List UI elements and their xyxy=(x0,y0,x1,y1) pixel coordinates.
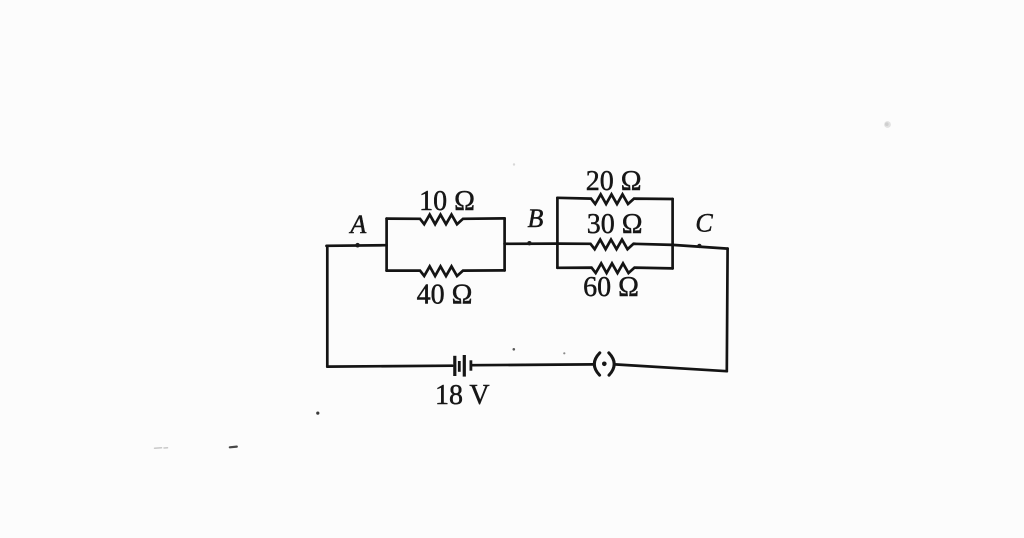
resistor 20 ohm top branch B-C xyxy=(557,194,672,204)
svg-text:40 Ω: 40 Ω xyxy=(417,280,473,311)
right parallel block right edge xyxy=(671,199,674,268)
scan smudge top right xyxy=(884,121,891,128)
right parallel block left edge xyxy=(556,198,559,268)
scan speck above bottom wire left xyxy=(513,348,516,351)
junction dot at node B xyxy=(527,241,531,245)
svg-text:A: A xyxy=(348,210,366,239)
svg-text:18 V: 18 V xyxy=(435,380,490,411)
svg-text:60 Ω: 60 Ω xyxy=(583,272,639,303)
junction dot at node C xyxy=(697,244,701,248)
left parallel block right edge xyxy=(503,218,506,270)
wire A input horizontal xyxy=(327,244,387,247)
svg-text:C: C xyxy=(695,209,713,238)
svg-text:20 Ω: 20 Ω xyxy=(586,166,642,197)
wire right vertical side xyxy=(725,249,728,372)
key / ammeter symbol center dot xyxy=(602,362,607,367)
svg-text:30 Ω: 30 Ω xyxy=(587,209,643,240)
wire battery to key xyxy=(472,363,593,367)
battery 18 V cell plates xyxy=(455,355,471,377)
wire left vertical side xyxy=(326,246,329,367)
scan speck faint dashes xyxy=(155,447,168,449)
scan speck above node B xyxy=(513,163,515,165)
resistor 10 ohm top branch A-B xyxy=(387,215,505,225)
wire key to bottom right corner xyxy=(615,364,727,371)
wire node B between blocks xyxy=(505,242,558,245)
scan speck above bottom wire right xyxy=(563,352,565,354)
svg-text:B: B xyxy=(528,204,544,233)
key / ammeter symbol (·) left arc xyxy=(594,353,600,375)
resistor 30 ohm middle branch B-C xyxy=(557,240,672,250)
junction dot at node A xyxy=(355,243,360,248)
wire node C to right corner xyxy=(673,245,728,249)
resistor 40 ohm bottom branch A-B xyxy=(387,266,505,276)
wire bottom left segment xyxy=(327,364,452,368)
left parallel block left edge xyxy=(385,219,388,271)
scan speck short dash xyxy=(230,446,237,449)
resistor 60 ohm bottom branch B-C xyxy=(557,263,672,273)
scan speck bottom left dot xyxy=(316,412,319,415)
svg-text:10 Ω: 10 Ω xyxy=(419,186,475,217)
key / ammeter symbol (·) right arc xyxy=(609,353,614,375)
